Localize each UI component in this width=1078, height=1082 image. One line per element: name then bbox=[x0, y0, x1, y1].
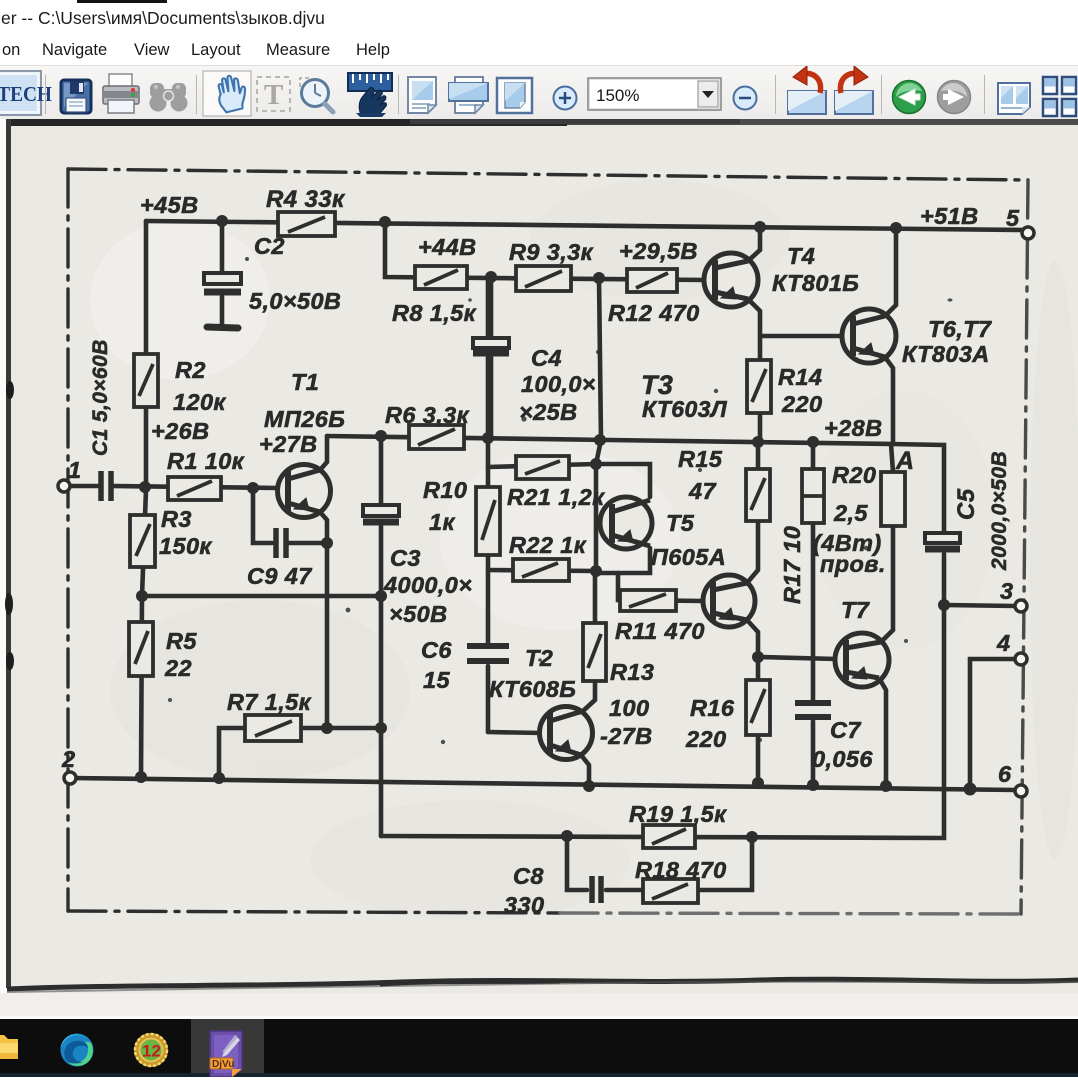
terminal 1 (input) bbox=[58, 480, 70, 492]
menu bar bbox=[0, 34, 1078, 65]
svg-text:Т6,Т7: Т6,Т7 bbox=[928, 316, 992, 342]
resistor R3 bbox=[130, 515, 155, 567]
wire: C9 branch under T1 bbox=[253, 488, 272, 543]
svg-text:6: 6 bbox=[998, 761, 1012, 787]
svg-text:R22 1к: R22 1к bbox=[509, 532, 587, 558]
resistor R12 bbox=[627, 269, 677, 292]
svg-text:2: 2 bbox=[61, 746, 75, 772]
svg-text:5: 5 bbox=[1006, 205, 1020, 231]
zoom out button bbox=[734, 87, 757, 110]
svg-text:П605А: П605А bbox=[651, 544, 726, 570]
node: feedback R18 rejoin bbox=[746, 831, 758, 843]
rotate right icon bbox=[835, 66, 873, 114]
save (floppy) icon bbox=[61, 80, 91, 113]
svg-text:+51В: +51В bbox=[920, 203, 978, 229]
svg-text:47: 47 bbox=[688, 478, 716, 504]
node: ground rail T7 emitter bbox=[880, 780, 892, 792]
Microsoft Edge icon bbox=[61, 1034, 94, 1067]
terminal 4 bbox=[1015, 653, 1027, 665]
svg-text:Т2: Т2 bbox=[525, 645, 553, 671]
wire: R21/R22 right bracket bbox=[594, 464, 599, 573]
scan speckles bbox=[168, 257, 953, 744]
forward navigation button (grey, disabled) bbox=[938, 81, 971, 114]
svg-text:Т4: Т4 bbox=[787, 243, 815, 269]
wire: R22 left lead bbox=[488, 570, 596, 571]
svg-text:КТ603Л: КТ603Л bbox=[642, 396, 728, 422]
resistor R2 bbox=[134, 354, 158, 407]
svg-text:R12 470: R12 470 bbox=[608, 300, 700, 326]
resistor R6 bbox=[409, 425, 464, 449]
single page layout icon bbox=[408, 77, 436, 113]
wire: T6 base row bbox=[760, 334, 844, 339]
wire: output node to terminal 3 bbox=[944, 605, 1016, 606]
svg-text:R8 1,5к: R8 1,5к bbox=[392, 300, 477, 326]
select text tool bbox=[257, 77, 290, 111]
wire: T5 emitter drop to R11 row bbox=[618, 573, 704, 601]
svg-text:1к: 1к bbox=[429, 509, 455, 535]
wire bbox=[288, 541, 327, 546]
svg-text:С4: С4 bbox=[531, 345, 562, 371]
zoom in button bbox=[554, 87, 577, 110]
svg-text:R3: R3 bbox=[161, 506, 192, 532]
resistor R4 bbox=[278, 212, 335, 236]
node: C3 top on +28V rail bbox=[375, 430, 387, 442]
svg-text:+45В: +45В bbox=[140, 192, 198, 218]
svg-text:С1 5,0×60В: С1 5,0×60В bbox=[89, 339, 112, 456]
print icon bbox=[103, 74, 139, 113]
svg-text:R14: R14 bbox=[778, 364, 822, 390]
node: R9/R12 junction bbox=[593, 272, 605, 284]
node: ground rail R16 bbox=[752, 777, 764, 789]
svg-text:330: 330 bbox=[504, 892, 544, 918]
capacitor C4 (electrolytic) bbox=[473, 338, 509, 353]
wire: C4 column bbox=[489, 277, 494, 437]
svg-text:12: 12 bbox=[142, 1042, 161, 1061]
svg-text:4000,0×: 4000,0× bbox=[383, 572, 472, 598]
svg-text:Т1: Т1 bbox=[291, 369, 319, 395]
capacitor C5 (electrolytic) bbox=[925, 533, 960, 549]
svg-text:+27В: +27В bbox=[259, 431, 317, 457]
taskbar bbox=[0, 1019, 1078, 1077]
resistor R9 bbox=[516, 266, 571, 291]
svg-text:220: 220 bbox=[685, 726, 726, 752]
wire: input from terminal 1 to C1 bbox=[68, 484, 99, 489]
svg-text:T: T bbox=[264, 79, 283, 111]
svg-text:DjVu: DjVu bbox=[212, 1059, 234, 1070]
wire: T2 base from C6 column bbox=[488, 732, 542, 733]
rotate left icon bbox=[788, 66, 826, 114]
svg-text:15: 15 bbox=[423, 667, 450, 693]
dark top edge of scan bbox=[7, 119, 1078, 125]
svg-text:4: 4 bbox=[996, 630, 1010, 656]
svg-text:С2: С2 bbox=[254, 233, 285, 259]
capacitor C2 negative end bar bbox=[207, 327, 238, 328]
svg-text:+29,5В: +29,5В bbox=[619, 238, 698, 264]
thumbnails grid icon bbox=[1043, 77, 1076, 116]
wire: T5 collector loop bbox=[596, 464, 650, 573]
terminal 5 (+51V) bbox=[1022, 227, 1034, 239]
node: C2 tap on +45V rail bbox=[216, 215, 228, 227]
resistor R21 bbox=[516, 456, 569, 479]
transistor T6 КТ803А bbox=[842, 309, 896, 363]
wire: bottom ground rail bbox=[70, 778, 1016, 790]
svg-text:R17 10: R17 10 bbox=[779, 526, 805, 604]
resistor R10 bbox=[476, 487, 500, 555]
node: T4 collector on rail bbox=[754, 221, 766, 233]
svg-text:R11 470: R11 470 bbox=[615, 618, 705, 644]
wire: T1 emitter column down to R7 node bbox=[320, 512, 327, 728]
svg-text:220: 220 bbox=[781, 391, 822, 417]
svg-text:пров.: пров. bbox=[820, 551, 886, 577]
node: T1 base/C9 bbox=[247, 482, 259, 494]
wire: T4 emitter / R14 column to +28V rail bbox=[748, 299, 760, 442]
capacitor C7 bbox=[795, 703, 831, 717]
svg-text:R1 10к: R1 10к bbox=[167, 448, 245, 474]
search (binoculars) icon, disabled grey bbox=[150, 83, 188, 112]
svg-text:С5: С5 bbox=[953, 488, 980, 520]
resistor R19 bbox=[643, 825, 695, 848]
zoom tool (magnifier with clock) bbox=[300, 78, 333, 112]
svg-text:+28В: +28В bbox=[824, 415, 882, 441]
resistor R20 bbox=[881, 472, 905, 526]
svg-text:0,056: 0,056 bbox=[812, 746, 873, 772]
svg-text:R15: R15 bbox=[678, 446, 723, 472]
resistor R5 bbox=[129, 622, 153, 676]
dark bottom wavy edge of scan bbox=[7, 979, 1078, 989]
capacitor C6 bbox=[467, 646, 509, 661]
svg-text:R5: R5 bbox=[166, 628, 197, 654]
wire: +45V top supply rail bbox=[146, 221, 1024, 230]
svg-text:А: А bbox=[895, 447, 914, 475]
transistor T3 КТ603Л bbox=[703, 575, 755, 627]
wire: R13 column to T2 collector bbox=[583, 573, 595, 711]
wire: C2 branch from top rail bbox=[220, 221, 225, 326]
transistor T1 МП26Б bbox=[278, 465, 331, 518]
svg-text:R13: R13 bbox=[610, 659, 654, 685]
node: T6 collector on rail bbox=[890, 222, 902, 234]
node: ground rail R5 bbox=[135, 771, 147, 783]
node: ground rail R7 drop bbox=[213, 772, 225, 784]
svg-text:×50В: ×50В bbox=[389, 601, 447, 627]
fit width layout icon bbox=[449, 77, 488, 113]
svg-text:150к: 150к bbox=[159, 533, 212, 559]
node: T3 emitter/R16/T7 base bbox=[752, 651, 764, 663]
node: output junction at C5 bottom bbox=[938, 599, 950, 611]
svg-text:+44В: +44В bbox=[418, 234, 476, 260]
wire: C5 bottom to feedback corner bbox=[381, 554, 944, 838]
terminal 3 (output) bbox=[1015, 600, 1027, 612]
resistor R13 bbox=[583, 623, 606, 681]
wire: C1 to R1 to T1 base bbox=[113, 486, 279, 488]
wire: R17/C7 column bbox=[811, 442, 816, 785]
svg-text:Т7: Т7 bbox=[841, 597, 870, 623]
folder icon (partially cut) bbox=[0, 1035, 18, 1059]
svg-text:2000,0×50В: 2000,0×50В bbox=[988, 451, 1011, 571]
svg-text:С3: С3 bbox=[390, 545, 421, 571]
window title bar bbox=[0, 0, 1078, 34]
resistor R7 bbox=[245, 715, 301, 741]
terminal 6 bbox=[1015, 785, 1027, 797]
node: R22 right bbox=[590, 565, 602, 577]
wire: R21 left lead bbox=[488, 464, 596, 467]
svg-text:R18 470: R18 470 bbox=[635, 857, 727, 883]
resistor R8 bbox=[415, 266, 467, 289]
node: R4/R8 junction bbox=[379, 216, 391, 228]
svg-text:R4 33к: R4 33к bbox=[266, 186, 346, 213]
svg-text:100,0×: 100,0× bbox=[521, 371, 596, 397]
wire: T7 base row bbox=[758, 657, 837, 659]
svg-text:КТ801Б: КТ801Б bbox=[772, 270, 859, 296]
wire: T3 collector column with R15 bbox=[747, 442, 758, 583]
resistor R17 bbox=[802, 469, 824, 523]
svg-text:×25В: ×25В bbox=[519, 399, 577, 425]
wire: T3 emitter to R16 column bbox=[747, 620, 758, 783]
resistor R22 bbox=[513, 559, 569, 581]
svg-text:R21 1,2к: R21 1,2к bbox=[507, 484, 605, 510]
svg-text:С8: С8 bbox=[513, 863, 544, 889]
svg-text:-27В: -27В bbox=[600, 723, 653, 749]
svg-text:R20: R20 bbox=[832, 462, 876, 488]
wire: left bias column (R2/R3/R5) bbox=[141, 221, 146, 777]
svg-text:R9 3,3к: R9 3,3к bbox=[509, 239, 594, 265]
round badge app icon with 12 bbox=[134, 1033, 168, 1067]
node: R14/R15 on +28V rail bbox=[752, 436, 764, 448]
node: R17 top on +28V rail bbox=[807, 436, 819, 448]
capacitor C3 (electrolytic) bbox=[363, 505, 399, 522]
resistor R11 bbox=[620, 590, 676, 611]
svg-text:КТ803А: КТ803А bbox=[902, 341, 990, 367]
svg-text:R19 1,5к: R19 1,5к bbox=[629, 801, 727, 827]
terminal 2 bbox=[64, 772, 76, 784]
dash-dot schematic border frame bbox=[68, 169, 1028, 914]
wire: T6 emitter to R20 bbox=[885, 357, 893, 444]
wire: terminal 4 drop to ground rail bbox=[970, 659, 1016, 789]
node: R8/R9/C4 junction bbox=[485, 271, 497, 283]
status bar bbox=[0, 993, 1078, 1017]
wire: R7 row and left drop bbox=[219, 728, 381, 778]
svg-text:+26В: +26В bbox=[151, 418, 209, 444]
svg-text:КТ608Б: КТ608Б bbox=[489, 676, 576, 702]
toolbar bbox=[0, 65, 1078, 120]
svg-text:R16: R16 bbox=[690, 695, 735, 721]
dark left edge of scan bbox=[6, 119, 11, 988]
resistor R14 bbox=[747, 360, 771, 413]
svg-text:R10: R10 bbox=[423, 477, 467, 503]
capacitor C8 (vertical plates) bbox=[592, 876, 601, 903]
transistor T2 КТ608Б bbox=[540, 707, 593, 760]
node: C9/emitter bbox=[321, 537, 333, 549]
svg-text:С9 47: С9 47 bbox=[247, 563, 312, 589]
node: R7 right bbox=[321, 722, 333, 734]
capacitor C2 (electrolytic, + plate hollow) bbox=[204, 273, 241, 292]
capacitor C1 (input, vertical plates) bbox=[101, 471, 111, 501]
svg-text:22: 22 bbox=[164, 655, 192, 681]
svg-text:120к: 120к bbox=[173, 389, 226, 415]
resistor R15 bbox=[746, 469, 770, 521]
svg-text:5,0×50В: 5,0×50В bbox=[249, 288, 341, 314]
svg-text:150%: 150% bbox=[596, 86, 639, 105]
node: C4 bottom on +28V rail bbox=[482, 432, 494, 444]
measure tool (hand with ruler) bbox=[348, 73, 392, 117]
svg-text:С7: С7 bbox=[830, 717, 861, 743]
wire: T1 collector riser bbox=[320, 436, 327, 470]
transistor T4 КТ801Б bbox=[704, 253, 758, 307]
fit page layout icon bbox=[497, 78, 532, 113]
resistor R18 bbox=[643, 879, 698, 903]
svg-text:1: 1 bbox=[68, 457, 81, 483]
node: R3/R5 bbox=[136, 590, 148, 602]
zoom combo box 150% bbox=[588, 78, 721, 110]
wire: +44V row (R8 R9 R12 to T4 base) bbox=[385, 222, 705, 280]
resistor R1 bbox=[168, 477, 221, 500]
DjVu app icon (active) bbox=[210, 1031, 242, 1077]
svg-text:3: 3 bbox=[1000, 578, 1013, 604]
wire: T2 emitter to ground rail bbox=[581, 755, 589, 786]
node: R21 right bbox=[590, 458, 602, 470]
wire: R9/R12 node down to +28V rail and R21 node bbox=[596, 278, 601, 464]
wire: T6 collector to top rail bbox=[885, 228, 896, 316]
svg-text:TECH: TECH bbox=[0, 83, 52, 106]
svg-text:R7 1,5к: R7 1,5к bbox=[227, 689, 312, 715]
svg-text:R2: R2 bbox=[175, 357, 206, 383]
wire: R3 to C3 column link bbox=[142, 594, 381, 599]
wire: T4 collector to top rail bbox=[748, 228, 760, 261]
svg-text:100: 100 bbox=[609, 695, 649, 721]
node: ground rail C7 bbox=[807, 779, 819, 791]
active app highlight bbox=[191, 1019, 264, 1077]
svg-text:Т5: Т5 bbox=[666, 510, 695, 536]
capacitor C9 (vertical plates) bbox=[276, 528, 286, 558]
node: C3 line at R3 row bbox=[375, 590, 387, 602]
wire: C4/R10/C6 column bbox=[486, 277, 491, 732]
svg-text:С6: С6 bbox=[421, 637, 452, 663]
resistor R16 bbox=[746, 680, 770, 735]
node: ground rail terminal 4 drop bbox=[964, 783, 977, 796]
svg-text:2,5: 2,5 bbox=[833, 500, 868, 526]
transistor T5 П605А bbox=[600, 497, 652, 549]
wire: T7 emitter to ground rail bbox=[879, 678, 886, 786]
svg-text:R6 3,3к: R6 3,3к bbox=[385, 402, 470, 428]
node: input/R2 bbox=[139, 481, 151, 493]
wire: stub to C5 top bbox=[891, 444, 944, 533]
node: feedback line left end bbox=[561, 830, 573, 842]
wire: +28V horizontal rail bbox=[327, 436, 893, 472]
node: ground rail T2 emitter bbox=[583, 780, 595, 792]
facing pages layout icon bbox=[998, 83, 1030, 114]
wire: R20 column down to T7 collector bbox=[881, 472, 893, 642]
transistor T7 КТ803А (output) bbox=[835, 633, 889, 687]
node: bracket tap on +28V rail bbox=[594, 434, 606, 446]
wire: C8/R18 branch bbox=[567, 836, 752, 890]
wire: C3 column from +28V rail through to feedback line bbox=[379, 436, 384, 836]
node: R7/C3 line bbox=[375, 722, 387, 734]
svg-text:МП26Б: МП26Б bbox=[264, 406, 345, 432]
TECH logo button (cut off at left) bbox=[0, 71, 52, 115]
back navigation button (green) bbox=[893, 81, 926, 114]
hand pan tool (active) bbox=[203, 71, 251, 116]
